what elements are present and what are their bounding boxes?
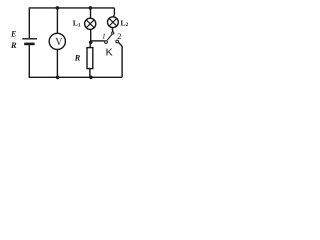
- node dot top-left (voltmeter tap): [56, 6, 60, 10]
- resistor R box: [87, 48, 93, 69]
- node dot bottom-left: [56, 76, 60, 80]
- svg-text:1: 1: [102, 32, 106, 41]
- node dot middle (L1/R/switch junction): [89, 41, 93, 45]
- node dot top-right (L1 tap): [89, 6, 93, 10]
- wire lamp L1 top lead: [90, 8, 92, 18]
- wire left branch upper: [28, 8, 30, 38]
- wire resistor top lead: [89, 42, 91, 47]
- battery cell short thick plate: [24, 43, 34, 46]
- wire bottom bus: [29, 76, 122, 78]
- svg-text:2: 2: [117, 32, 121, 41]
- svg-text:V: V: [55, 37, 63, 48]
- voltmeter U1 circle: [49, 33, 65, 49]
- svg-text:R: R: [10, 40, 17, 50]
- wire switch feed (node to contact 1): [91, 40, 105, 42]
- battery cell long plate: [22, 38, 37, 40]
- wire top bus: [29, 7, 115, 9]
- switch K contact 2 circle: [116, 40, 119, 43]
- lamp L1 circle: [85, 18, 96, 29]
- wire right branch: [121, 46, 123, 77]
- wire left branch lower: [28, 45, 30, 77]
- node dot bottom-right: [89, 76, 93, 80]
- svg-text:K: K: [106, 46, 113, 58]
- switch K contact 1 circle: [105, 41, 108, 44]
- wire contact 2 tail: [118, 42, 122, 46]
- lamp L2 cross: [109, 18, 117, 26]
- svg-text:R: R: [74, 52, 81, 62]
- wire lamp L1 bottom lead: [90, 29, 92, 42]
- wire voltmeter top lead: [56, 8, 58, 33]
- wire lamp L2 bottom stub (pivot): [111, 28, 113, 32]
- wire lamp L2 top lead: [113, 8, 115, 15]
- svg-text:E: E: [10, 30, 16, 39]
- wire voltmeter bottom lead: [56, 50, 58, 78]
- lamp L2 circle: [108, 17, 119, 28]
- switch K lever blade: [107, 34, 112, 40]
- lamp L1 cross: [86, 20, 94, 28]
- switch K pivot contact circle: [112, 32, 114, 34]
- wire resistor bottom lead: [89, 69, 91, 78]
